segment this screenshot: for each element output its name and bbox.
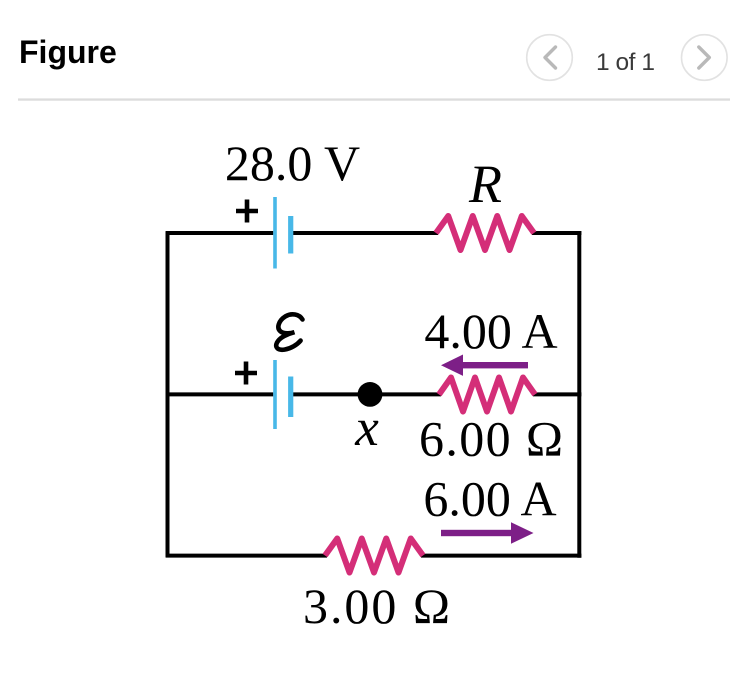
wire middle right segment (533, 392, 581, 396)
wire top left segment (166, 231, 274, 235)
wire top right segment (532, 231, 581, 235)
current arrow 4.00 A (left) (441, 355, 528, 376)
battery V1 long plate (273, 197, 277, 269)
wire middle center segment (292, 392, 441, 396)
header divider (18, 98, 730, 100)
resistor R zigzag (436, 216, 534, 250)
wire middle left segment (166, 392, 274, 396)
next chevron (699, 47, 710, 68)
svg-text:28.0 V: 28.0 V (225, 135, 360, 191)
svg-text:6.00 A: 6.00 A (423, 471, 556, 527)
svg-text:6.00 Ω: 6.00 Ω (419, 411, 563, 467)
prev button circle (527, 35, 573, 81)
battery EMF short plate (288, 377, 293, 418)
wire left vertical (166, 231, 170, 557)
svg-text:Figure: Figure (19, 34, 117, 70)
battery V1 plus sign (236, 200, 258, 223)
wire bottom left segment (166, 554, 327, 558)
node x dot (358, 382, 383, 407)
battery EMF plus sign (235, 362, 257, 385)
svg-text:R: R (468, 154, 502, 214)
wire right vertical (577, 231, 581, 558)
resistor 3 ohm zigzag (325, 539, 423, 573)
emf label script E (276, 314, 302, 349)
prev chevron (545, 47, 556, 68)
svg-text:1 of 1: 1 of 1 (596, 49, 655, 76)
current arrow 6.00 A (right) (441, 522, 534, 543)
battery EMF long plate (273, 360, 277, 429)
svg-text:x: x (354, 399, 379, 457)
svg-text:3.00 Ω: 3.00 Ω (303, 578, 450, 634)
wire top middle segment (292, 231, 438, 235)
battery V1 short plate (288, 216, 293, 254)
wire bottom right segment (421, 554, 581, 558)
resistor 6 ohm zigzag (439, 378, 535, 412)
svg-text:4.00 A: 4.00 A (424, 303, 557, 359)
next button circle (682, 35, 728, 81)
